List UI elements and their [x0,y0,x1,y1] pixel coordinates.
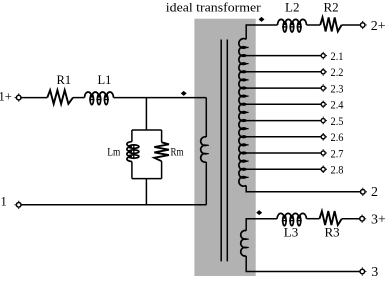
wire: Lm lower lead [131,161,133,178]
wire: R2 to terminal 2+ [342,24,360,26]
wire: L1 to transformer primary [114,97,207,99]
svg-text:L1: L1 [98,73,112,87]
primary winding W1 [201,137,209,162]
transformer core line right [226,40,228,262]
polarity dot secondary [259,17,264,21]
node junction at magnetizing branch [145,98,147,130]
tap wire 2.8 [246,168,320,170]
wire: bottom rail terminal 1 to primary [21,204,206,206]
wire: R3 to terminal 3+ [342,218,360,220]
wire: W3 top lead to L3 [246,219,277,231]
terminal 2 [361,190,366,195]
wire: magnetizing branch to bottom rail [145,179,147,205]
polarity dot primary [181,91,186,95]
ideal transformer enclosure box [194,19,255,276]
inductor Lm [127,142,139,162]
svg-text:2.6: 2.6 [331,130,344,144]
tap terminal 2.3 [321,86,325,90]
svg-text:2.1: 2.1 [331,49,344,63]
svg-text:L2: L2 [285,0,299,14]
wire: R1 to L1 [73,97,85,99]
tap terminal 2.8 [321,167,325,171]
tap wire 2.2 [246,71,320,73]
svg-text:2+: 2+ [371,19,385,34]
svg-text:ideal transformer: ideal transformer [166,0,262,14]
wire: primary vertical leads [205,98,207,205]
tap wire 2.1 [246,55,320,57]
inductor L2 [278,19,307,32]
svg-text:2.8: 2.8 [331,163,344,177]
transformer core line left [220,40,222,262]
tertiary winding W3 [241,231,249,257]
tap terminal 2.7 [321,151,325,155]
svg-text:2.4: 2.4 [331,98,344,112]
svg-text:Lm: Lm [107,146,120,158]
svg-text:R2: R2 [324,0,339,14]
secondary winding W2 [239,39,249,187]
wire: secondary bottom lead to terminal 2 [246,186,360,192]
wire: Lm upper lead [131,130,133,142]
svg-text:3+: 3+ [371,213,385,228]
resistor R2 [320,17,341,31]
svg-text:R3: R3 [325,224,340,239]
tap wire 2.4 [246,103,320,105]
resistor Rm [154,142,169,161]
tap terminal 2.5 [321,119,325,123]
terminal 2+ [360,23,365,28]
resistor R1 [47,90,73,104]
tap terminal 2.2 [321,70,325,74]
svg-text:L3: L3 [284,224,298,239]
wire: L3 to R3 [306,218,319,220]
svg-text:1: 1 [1,195,7,209]
inductor L3 [277,213,306,225]
tap wire 2.3 [246,87,320,89]
svg-text:2: 2 [371,185,378,200]
wire: Rm upper lead [161,130,163,142]
wire: magnetizing box top bar [132,129,162,131]
tap wire 2.5 [246,120,320,122]
svg-text:3: 3 [371,265,378,280]
terminal 3 [360,269,365,274]
wire: secondary top lead to L2 [246,25,277,39]
svg-text:2.2: 2.2 [331,65,344,79]
inductor L1 [85,92,114,105]
tap wire 2.7 [246,152,320,154]
tap terminal 2.1 [321,54,325,58]
wire: magnetizing box bottom bar [132,178,162,180]
polarity dot tertiary [257,211,262,215]
wire: terminal 1+ to R1 [21,97,47,99]
svg-text:Rm: Rm [171,146,184,158]
svg-text:1+: 1+ [0,90,12,104]
wire: Rm lower lead [161,161,163,178]
terminal 3+ [360,216,365,221]
wire: W3 bottom lead to terminal 3 [246,256,359,272]
tap wire 2.6 [246,136,320,138]
tap terminal 2.6 [321,135,325,139]
svg-text:R1: R1 [57,73,72,87]
svg-text:2.7: 2.7 [331,146,344,160]
resistor R3 [320,211,342,225]
svg-text:2.3: 2.3 [331,82,344,96]
wire: L2 to R2 [307,24,321,26]
tap terminal 2.4 [321,102,325,106]
svg-text:2.5: 2.5 [331,114,344,128]
